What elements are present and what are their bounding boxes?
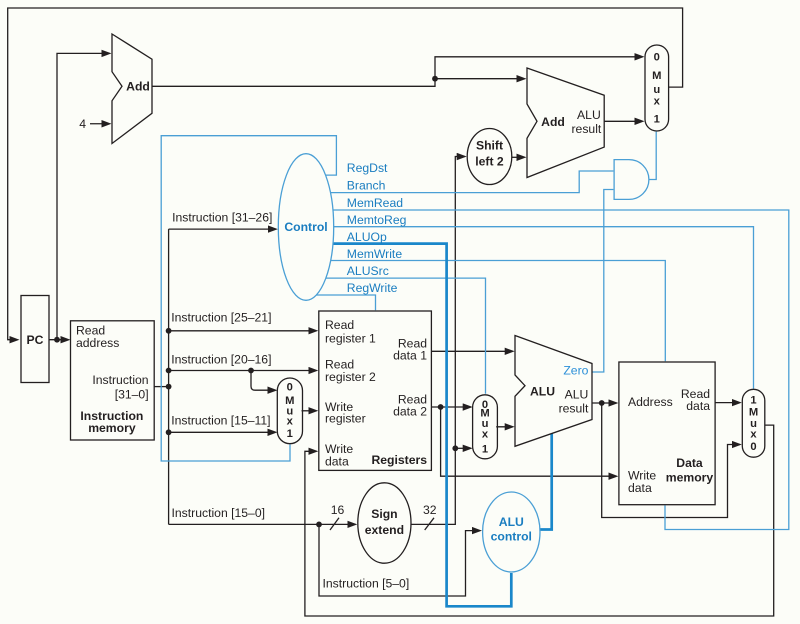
wire instruction [20-16] branch to write-register mux input 0: [251, 371, 276, 391]
wire constant 4 to Add: [90, 123, 110, 125]
wire instruction [15-0] to sign extend: [169, 523, 319, 525]
svg-text:Address: Address: [628, 395, 673, 409]
final mux (MemtoReg): [742, 389, 765, 457]
svg-text:RegDst: RegDst: [347, 161, 388, 175]
svg-text:Add: Add: [126, 80, 150, 94]
adder Add (branch target): [527, 68, 604, 178]
node read data 2 branch: [438, 404, 444, 410]
svg-text:Registers: Registers: [371, 453, 427, 467]
ALU control unit: [483, 492, 540, 572]
svg-text:4: 4: [79, 117, 86, 131]
node instruction [15-0] branch: [316, 522, 322, 528]
wire ALU mux output to ALU: [496, 426, 513, 428]
sign extend unit: [358, 483, 411, 563]
control unit ellipse: [278, 154, 333, 301]
svg-text:Instruction: Instruction: [92, 373, 148, 387]
svg-text:MemRead: MemRead: [347, 196, 403, 210]
svg-text:Add: Add: [541, 115, 565, 129]
instruction memory: [71, 321, 155, 440]
slash 16 bits: [330, 518, 339, 530]
wire MemRead to data memory: [333, 210, 789, 530]
svg-text:16: 16: [331, 503, 345, 517]
node PC+4 junction: [432, 76, 438, 82]
svg-text:1: 1: [482, 443, 488, 455]
registers file: [319, 311, 432, 470]
svg-text:MemWrite: MemWrite: [347, 247, 403, 261]
svg-text:Instruction [15–11]: Instruction [15–11]: [171, 414, 270, 428]
svg-text:ALU: ALU: [530, 385, 555, 399]
svg-text:Instruction [25–21]: Instruction [25–21]: [171, 311, 271, 325]
svg-text:0: 0: [287, 381, 293, 393]
wire memory read data to final mux input 1: [715, 402, 740, 404]
svg-text:Branch: Branch: [347, 179, 386, 193]
wire PC output to instruction memory: [49, 339, 69, 341]
wire PC output up to Add: [57, 53, 110, 339]
svg-text:1: 1: [750, 395, 756, 407]
svg-text:Control: Control: [284, 220, 327, 234]
svg-text:1: 1: [654, 113, 660, 125]
svg-text:MemtoReg: MemtoReg: [347, 213, 407, 227]
wire read data 2 branch to data memory write data: [441, 407, 617, 476]
svg-text:Sign: Sign: [371, 507, 397, 521]
node ALU result branch: [599, 400, 605, 406]
svg-text:ALU: ALU: [577, 108, 601, 122]
wire instruction memory output to bus: [154, 386, 168, 388]
wire RegDst to write-register mux select: [161, 136, 336, 461]
svg-text:register 1: register 1: [325, 332, 376, 346]
svg-text:data 1: data 1: [393, 349, 427, 363]
svg-text:result: result: [571, 122, 601, 136]
wire Branch to AND gate: [331, 171, 614, 193]
svg-text:Zero: Zero: [563, 364, 588, 378]
wire RegWrite to registers: [316, 295, 375, 310]
wire sign extend branch to ALU mux input 1: [455, 447, 470, 449]
wire instruction [15-11] to write-register mux input 1: [169, 431, 276, 433]
node PC output junction: [54, 337, 60, 343]
svg-text:ALU: ALU: [565, 387, 589, 401]
svg-text:memory: memory: [666, 470, 714, 484]
svg-text:0: 0: [654, 51, 660, 63]
svg-text:address: address: [76, 336, 119, 350]
svg-text:data: data: [628, 481, 652, 495]
svg-text:data: data: [686, 399, 710, 413]
svg-text:ALUSrc: ALUSrc: [347, 264, 389, 278]
svg-text:Instruction [5–0]: Instruction [5–0]: [323, 577, 410, 591]
svg-text:M: M: [652, 70, 661, 82]
node instruction bus [15-11]: [166, 429, 172, 435]
AND gate (branch and zero): [614, 160, 649, 200]
wire MemWrite to data memory: [331, 261, 666, 362]
wire ALU result to data memory address: [592, 402, 617, 404]
wire sign extend output to shift left 2: [411, 157, 465, 525]
shift left 2 unit: [467, 129, 512, 185]
svg-text:result: result: [559, 401, 589, 415]
svg-text:Read: Read: [325, 318, 354, 332]
wire ALU control output to ALU (thick): [540, 434, 552, 530]
wire write-back final mux output to registers write data: [305, 425, 774, 616]
svg-text:x: x: [654, 95, 661, 107]
PC register: [21, 296, 49, 383]
wire ALUSrc to ALU mux select: [326, 278, 486, 394]
svg-text:x: x: [750, 428, 757, 440]
svg-text:Data: Data: [676, 456, 703, 470]
svg-text:left 2: left 2: [475, 154, 504, 168]
wire shift left 2 output to branch Add: [512, 156, 525, 158]
svg-text:extend: extend: [365, 523, 404, 537]
wire PC feedback (mux output to PC input): [8, 8, 683, 340]
svg-text:x: x: [287, 415, 294, 427]
node instruction bus output: [166, 384, 172, 390]
wire instruction [5-0] to ALU control: [319, 524, 480, 596]
wire instruction [20-16] to read register 2: [169, 370, 317, 372]
svg-text:32: 32: [423, 503, 437, 517]
svg-text:x: x: [482, 428, 489, 440]
svg-text:Shift: Shift: [476, 138, 503, 152]
svg-text:register 2: register 2: [325, 370, 376, 384]
wire PC+4 to top mux input 0: [435, 57, 643, 79]
wire Zero to AND gate: [592, 190, 614, 373]
svg-text:1: 1: [287, 428, 293, 440]
wire read data 2 to ALU mux input 0: [431, 406, 470, 408]
write-register mux (RegDst): [277, 378, 302, 444]
wire instruction [25-21] to read register 1: [169, 330, 317, 332]
svg-text:control: control: [491, 530, 532, 544]
svg-text:memory: memory: [88, 421, 136, 435]
wire instruction bus vertical: [168, 229, 170, 524]
svg-text:PC: PC: [27, 333, 44, 347]
wire PC+4 to branch Add: [435, 78, 525, 80]
svg-text:[31–0]: [31–0]: [115, 387, 149, 401]
wire write-register mux output to registers: [302, 410, 317, 412]
svg-text:u: u: [653, 84, 660, 96]
svg-text:ALUOp: ALUOp: [347, 230, 387, 244]
wire branch Add result to top mux input 1: [604, 120, 642, 122]
svg-text:data 2: data 2: [393, 404, 427, 418]
svg-text:Instruction [20–16]: Instruction [20–16]: [171, 353, 271, 367]
node instruction bus [20-16]: [166, 368, 172, 374]
top mux (PCSrc): [645, 45, 669, 131]
svg-text:Instruction [31–26]: Instruction [31–26]: [172, 210, 272, 224]
wire ALU result branch to final mux input 0: [602, 403, 740, 518]
main ALU: [515, 336, 592, 447]
svg-text:ALU: ALU: [499, 515, 524, 529]
node instruction bus [25-21]: [166, 328, 172, 334]
svg-text:0: 0: [750, 441, 756, 453]
wire instruction [31-26] to Control: [169, 228, 276, 230]
slash 32 bits: [425, 518, 434, 530]
wire Add output PC+4: [152, 79, 435, 87]
node sign extend branch: [452, 445, 458, 451]
ALU mux (ALUSrc): [473, 395, 498, 459]
wire read data 1 to ALU: [431, 350, 512, 352]
wire AND output PCSrc to top mux select: [649, 132, 656, 180]
svg-text:data: data: [325, 454, 349, 468]
svg-text:M: M: [749, 407, 758, 419]
svg-text:Instruction [15–0]: Instruction [15–0]: [172, 506, 266, 520]
data memory: [619, 362, 715, 505]
wire ALUOp to ALU control (2 bits, thick): [333, 244, 511, 607]
adder Add (PC+4): [112, 34, 152, 144]
svg-text:register: register: [325, 412, 366, 426]
wire MemtoReg to final mux select: [334, 227, 754, 389]
svg-text:RegWrite: RegWrite: [347, 281, 398, 295]
node instruction [20-16] branch: [248, 368, 254, 374]
